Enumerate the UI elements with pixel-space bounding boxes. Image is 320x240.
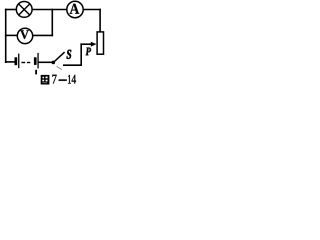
wire switch fixed contact horizontal (64, 64, 81, 66)
ammeter letter A (70, 4, 80, 14)
wire battery to switch (39, 61, 52, 63)
caption digit 1 (68, 75, 71, 84)
wire right vertical down to rheostat (99, 10, 101, 32)
wire wiper arrow shaft (81, 43, 91, 45)
switch label S (67, 50, 72, 59)
wire voltmeter left stub (6, 34, 17, 36)
battery cell 1 thick plate (negative) (15, 57, 18, 65)
wire top-left horizontal (6, 9, 17, 11)
caption text 7-14 (52, 75, 56, 84)
wire junction vertical to voltmeter level (51, 10, 53, 36)
battery inter-cell dash 1 (21, 62, 25, 63)
caption digit 4 (72, 75, 76, 84)
battery cell 1 thin plate (positive) (18, 54, 19, 69)
battery cell 2 thin plate (positive) (37, 53, 38, 69)
voltmeter letter V (20, 30, 29, 39)
wiper arrowhead (91, 42, 97, 47)
caption dash (59, 79, 67, 81)
faint smudge near switch (57, 66, 62, 70)
battery inter-cell dash 2 (27, 62, 30, 63)
wire lamp to junction to ammeter (33, 9, 66, 11)
ammeter A (circle) (67, 1, 83, 17)
wire voltmeter right stub (33, 34, 52, 36)
wiper label P (86, 48, 91, 56)
voltmeter V (circle) (17, 28, 32, 43)
switch blade S (55, 52, 65, 61)
wire riser vertical to wiper (80, 44, 82, 65)
lamp L1 (circle with X) (16, 1, 32, 17)
wire bottom-left horizontal (6, 61, 15, 63)
battery cell 2 thick plate (negative) (34, 57, 37, 65)
switch pivot node (52, 61, 56, 65)
stray mark below battery (35, 70, 37, 75)
caption black box with tu character (41, 75, 50, 85)
wire ammeter to top-right corner (84, 9, 100, 11)
wire left vertical (5, 10, 7, 63)
rheostat R (box) (97, 32, 103, 54)
